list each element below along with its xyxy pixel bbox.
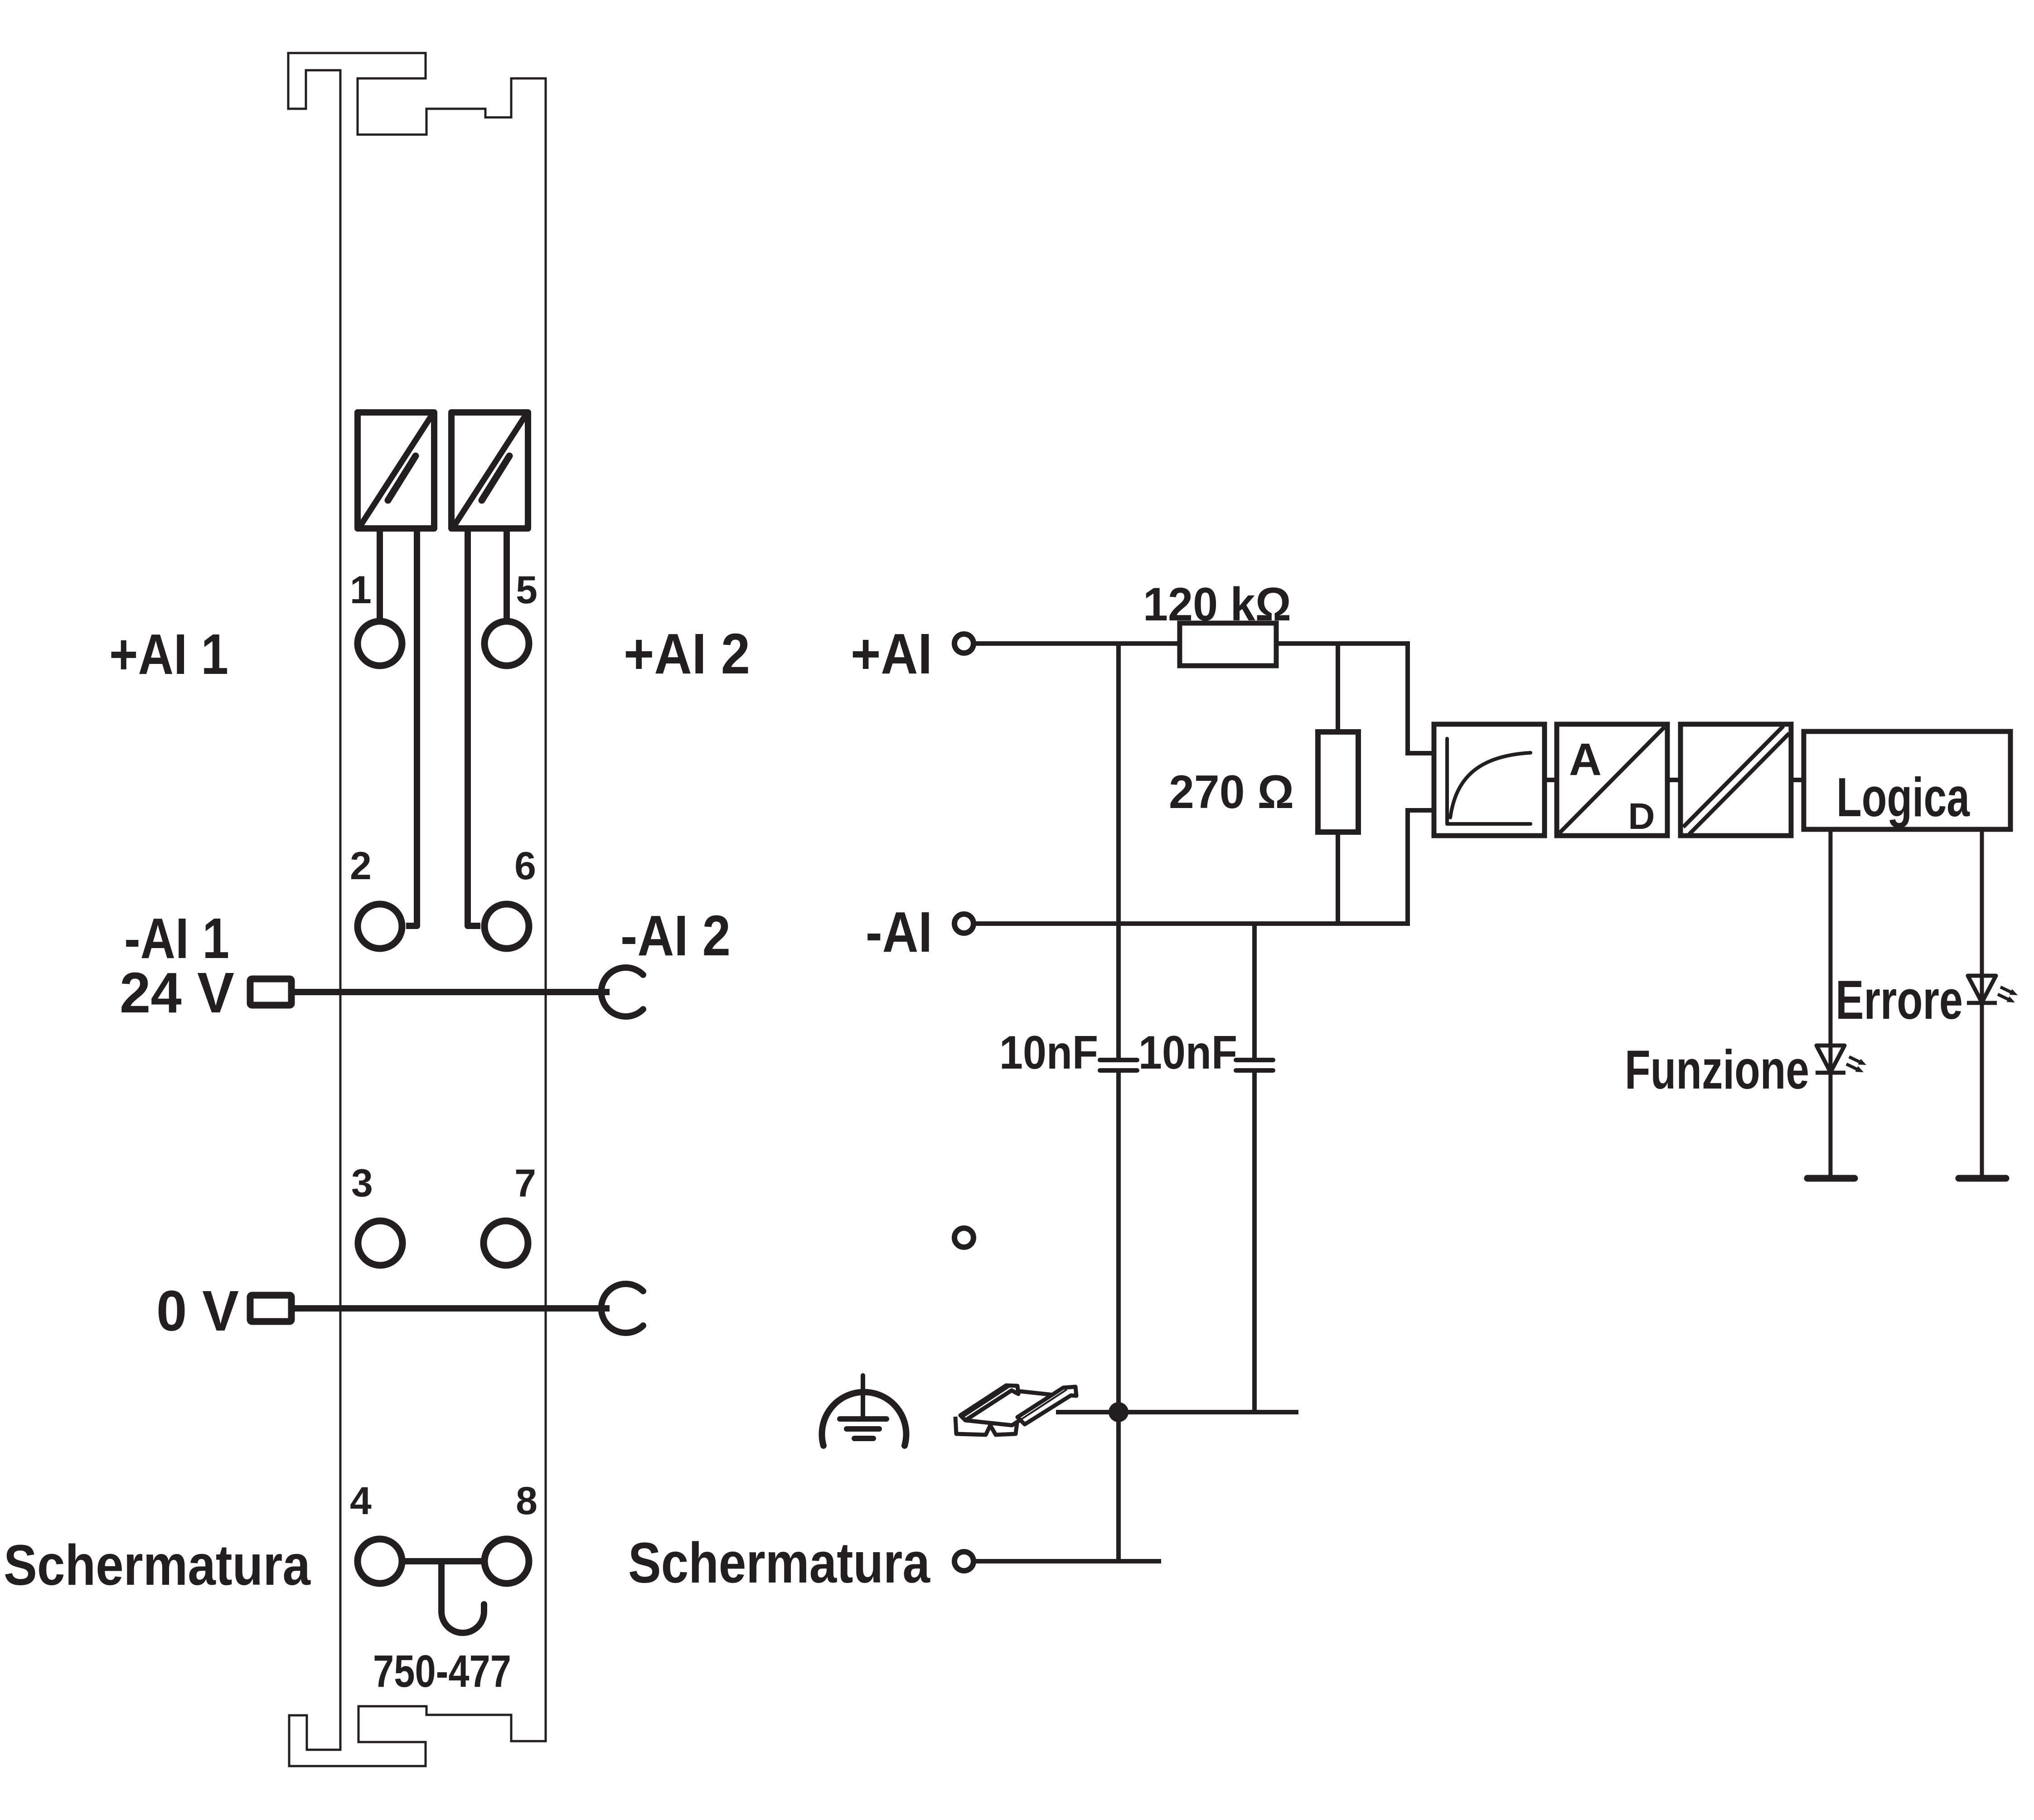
terminal circle 4 bbox=[358, 1539, 402, 1583]
wire clamp2 to terminal 6 bbox=[468, 528, 480, 926]
LED Funzione bbox=[1816, 1046, 1866, 1073]
svg-text:Schermatura: Schermatura bbox=[4, 1533, 311, 1597]
DIN rail icon bbox=[955, 1385, 1076, 1435]
svg-text:+AI 2: +AI 2 bbox=[624, 622, 750, 686]
svg-text:Logica: Logica bbox=[1836, 766, 1970, 828]
resistor 120 kOhm bbox=[1180, 623, 1276, 666]
0 V bus contact arc bbox=[601, 1284, 643, 1333]
wire -AI node down to capacitor 2 bbox=[1252, 924, 1257, 1060]
svg-text:270 Ω: 270 Ω bbox=[1169, 766, 1294, 818]
schematic input circle -AI bbox=[954, 914, 973, 933]
svg-text:-AI 2: -AI 2 bbox=[620, 904, 731, 968]
svg-text:10nF: 10nF bbox=[1138, 1026, 1237, 1079]
ground bar Errore bbox=[1959, 1175, 2006, 1182]
svg-text:24 V: 24 V bbox=[120, 961, 234, 1025]
functional earth symbol bbox=[822, 1375, 906, 1446]
clamp contact square 2 bbox=[451, 411, 528, 529]
svg-text:+AI: +AI bbox=[851, 622, 932, 686]
ground rail wire bbox=[1056, 1410, 1298, 1414]
module outline 750-477 body bbox=[288, 53, 546, 1766]
ground bar Funzione bbox=[1807, 1175, 1855, 1182]
clamp contact square 1 bbox=[358, 411, 434, 529]
wire Errore branch bbox=[1980, 829, 1984, 1178]
wire clamp1 to terminal 2 bbox=[406, 528, 417, 926]
24 V power tap square bbox=[250, 979, 291, 1005]
svg-text:5: 5 bbox=[516, 568, 538, 612]
wire -AI rail bbox=[974, 810, 1434, 924]
schematic input circle unused bbox=[954, 1228, 973, 1247]
wire 270 Ohm top bbox=[1336, 644, 1340, 732]
24 V rail wire bbox=[295, 989, 610, 995]
svg-text:A: A bbox=[1569, 734, 1602, 785]
capacitor 10nF C2 bbox=[1236, 1060, 1273, 1070]
svg-text:1: 1 bbox=[350, 568, 372, 612]
svg-text:Schermatura: Schermatura bbox=[628, 1531, 930, 1595]
svg-text:Errore: Errore bbox=[1835, 969, 1963, 1031]
wire capacitor 2 down to ground line bbox=[1252, 1070, 1257, 1412]
terminal circle 1 bbox=[358, 621, 402, 666]
A/D converter block bbox=[1557, 724, 1667, 837]
svg-text:10nF: 10nF bbox=[999, 1026, 1098, 1079]
svg-text:+AI 1: +AI 1 bbox=[109, 622, 228, 686]
wire capacitor 1 down to shield node bbox=[1116, 1070, 1121, 1561]
svg-text:7: 7 bbox=[514, 1162, 536, 1205]
connector filter to A/D bbox=[1545, 778, 1557, 782]
terminal circle 7 bbox=[484, 1221, 528, 1265]
junction dot bbox=[1109, 1402, 1128, 1422]
terminal circle 5 bbox=[484, 621, 529, 666]
24 V bus contact arc bbox=[601, 968, 643, 1016]
svg-text:0 V: 0 V bbox=[156, 1279, 239, 1343]
schematic input circle +AI bbox=[954, 634, 973, 653]
Logica block bbox=[1804, 731, 2010, 829]
svg-text:120 kΩ: 120 kΩ bbox=[1143, 578, 1291, 631]
filter block bbox=[1434, 724, 1545, 836]
galvanic isolation block bbox=[1680, 724, 1791, 836]
wire 270 Ohm bottom bbox=[1336, 832, 1340, 924]
wire clamp2 to terminal 5 bbox=[504, 528, 510, 619]
svg-text:4: 4 bbox=[350, 1479, 372, 1523]
resistor 270 Ohm bbox=[1318, 732, 1358, 832]
svg-text:2: 2 bbox=[350, 844, 372, 888]
terminal circle 8 bbox=[484, 1539, 529, 1583]
terminal circle 3 bbox=[358, 1221, 402, 1265]
svg-text:8: 8 bbox=[516, 1479, 538, 1523]
schematic input circle Schermatura bbox=[954, 1552, 973, 1571]
0 V power tap square bbox=[250, 1295, 291, 1321]
wire +AI node down to capacitor 1 bbox=[1116, 644, 1121, 1060]
wire Schermatura bbox=[974, 1559, 1161, 1563]
svg-text:-AI: -AI bbox=[866, 900, 932, 964]
connector A/D to isolation bbox=[1667, 778, 1680, 782]
wire +AI rail bbox=[974, 644, 1434, 753]
svg-text:6: 6 bbox=[514, 844, 536, 888]
svg-text:Funzione: Funzione bbox=[1625, 1039, 1809, 1100]
svg-text:3: 3 bbox=[351, 1162, 373, 1205]
capacitor 10nF C1 bbox=[1100, 1060, 1137, 1070]
svg-text:750-477: 750-477 bbox=[373, 1646, 511, 1697]
terminal circle 6 bbox=[484, 904, 529, 949]
jumper terminal 4 to 8 with hook bbox=[405, 1558, 481, 1564]
0 V rail wire bbox=[295, 1305, 610, 1312]
terminal circle 2 bbox=[358, 904, 402, 949]
LED Errore bbox=[1967, 976, 2018, 1003]
connector isolation to Logica bbox=[1791, 778, 1804, 782]
wire clamp1 to terminal 1 bbox=[377, 528, 383, 619]
wire Funzione branch bbox=[1829, 829, 1833, 1178]
svg-text:D: D bbox=[1628, 796, 1655, 837]
